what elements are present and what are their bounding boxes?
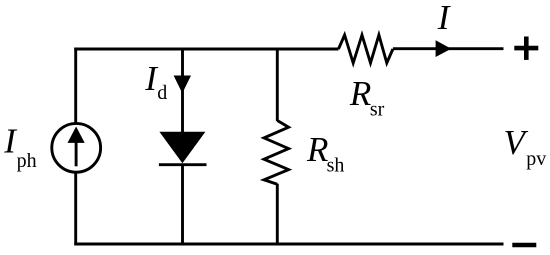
label Vpv xyxy=(504,123,547,170)
svg-text:sr: sr xyxy=(370,99,385,121)
svg-text:I: I xyxy=(437,0,452,37)
arrow Id current direction xyxy=(174,76,191,94)
label Id xyxy=(144,59,167,104)
label Iph xyxy=(3,122,36,173)
wire left vertical lower xyxy=(74,172,77,245)
terminal minus xyxy=(512,243,536,248)
svg-text:R: R xyxy=(349,74,371,113)
wire bottom horizontal xyxy=(74,243,503,246)
svg-text:sh: sh xyxy=(327,155,345,177)
svg-text:ph: ph xyxy=(17,150,37,172)
svg-text:R: R xyxy=(306,130,328,169)
label Rsh xyxy=(306,130,344,177)
svg-text:pv: pv xyxy=(526,148,546,170)
wire left vertical xyxy=(74,48,77,123)
resistor Rsr xyxy=(339,35,393,63)
wire top right horizontal xyxy=(393,47,504,50)
svg-text:d: d xyxy=(157,82,167,104)
label Rsr xyxy=(349,74,385,121)
terminal plus xyxy=(514,37,538,60)
wire diode branch upper xyxy=(181,48,184,133)
wire shunt branch lower xyxy=(276,184,279,244)
wire diode branch lower xyxy=(181,165,184,244)
wire shunt branch upper xyxy=(276,48,279,121)
resistor Rsh xyxy=(264,121,289,185)
svg-text:V: V xyxy=(504,123,529,162)
wire top horizontal xyxy=(74,48,338,51)
current source Iph xyxy=(52,123,101,172)
arrow I output current xyxy=(436,40,452,57)
diode D xyxy=(159,132,207,165)
